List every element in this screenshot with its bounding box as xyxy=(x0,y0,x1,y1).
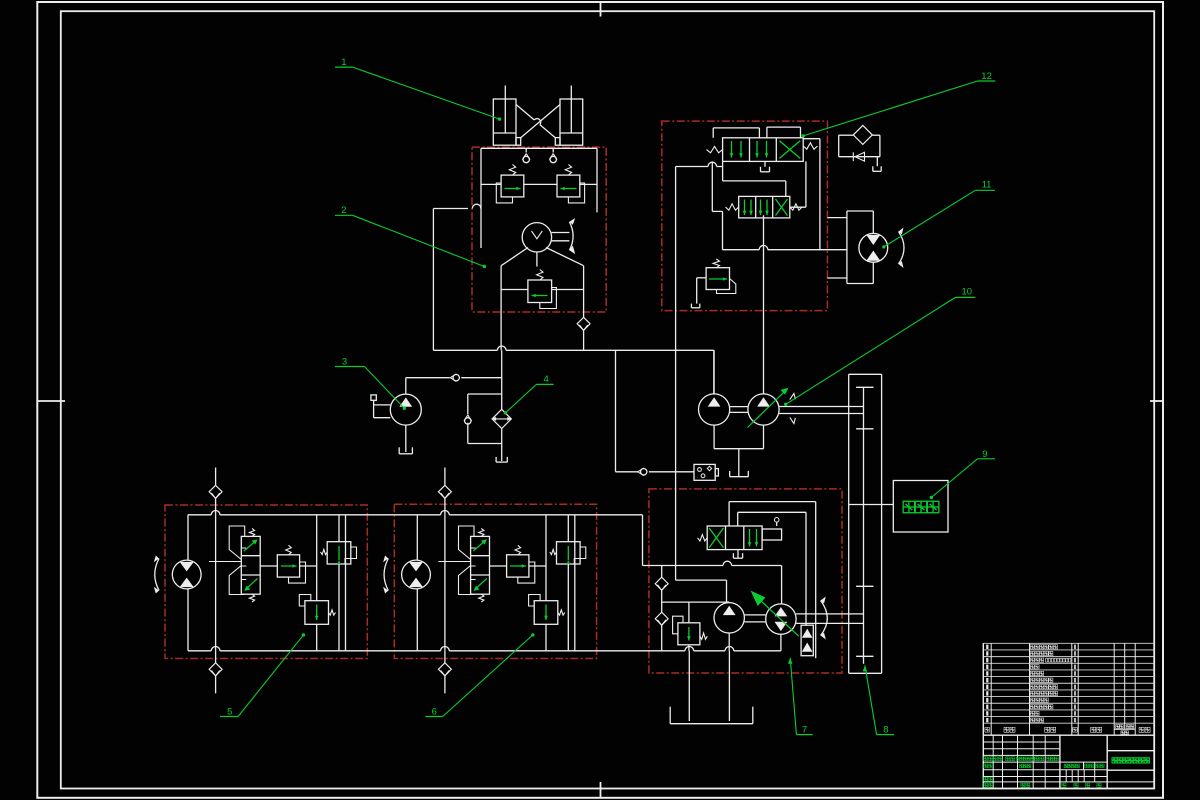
svg-text:6: 6 xyxy=(432,706,437,717)
svg-text:2: 2 xyxy=(341,205,346,216)
svg-text:8: 8 xyxy=(883,724,888,735)
svg-text:12: 12 xyxy=(981,71,992,82)
svg-text:11: 11 xyxy=(982,179,992,190)
svg-text:5: 5 xyxy=(227,706,232,717)
svg-text:1: 1 xyxy=(341,57,346,68)
svg-text:7: 7 xyxy=(802,724,807,735)
svg-text:10: 10 xyxy=(962,287,973,298)
svg-text:9: 9 xyxy=(982,449,987,460)
svg-text:4: 4 xyxy=(543,374,548,385)
svg-text:3: 3 xyxy=(342,356,347,367)
